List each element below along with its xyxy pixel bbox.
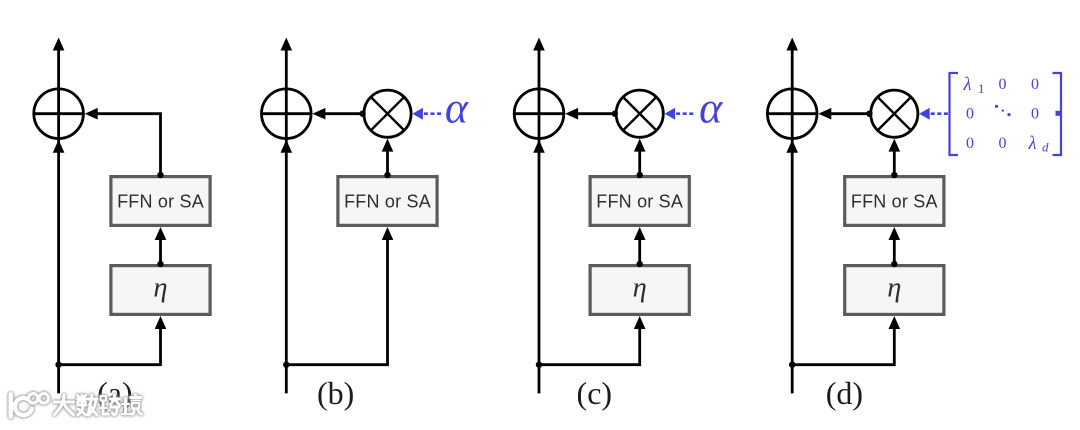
svg-text:(d): (d) [826,375,863,411]
svg-text:d: d [1042,140,1049,155]
svg-text:(c): (c) [577,375,613,411]
svg-text:η: η [153,272,167,303]
svg-text:α: α [699,83,723,132]
svg-text:η: η [887,272,901,303]
svg-text:0: 0 [966,105,974,122]
svg-text:0: 0 [966,135,974,152]
svg-text:0: 0 [1031,105,1039,122]
svg-text:FFN or SA: FFN or SA [117,192,204,212]
svg-text:0: 0 [999,135,1007,152]
svg-text:λ: λ [1028,134,1037,154]
svg-text:1: 1 [978,81,985,96]
svg-text:FFN or SA: FFN or SA [344,192,431,212]
svg-text:λ: λ [963,75,972,95]
svg-text:FFN or SA: FFN or SA [851,192,938,212]
svg-text:(b): (b) [317,375,354,411]
svg-text:FFN or SA: FFN or SA [596,192,683,212]
svg-text:α: α [445,83,469,132]
svg-text:η: η [633,272,647,303]
svg-text:0: 0 [999,76,1007,93]
svg-text:0: 0 [1031,76,1039,93]
